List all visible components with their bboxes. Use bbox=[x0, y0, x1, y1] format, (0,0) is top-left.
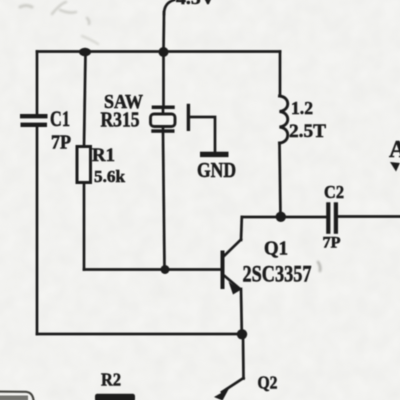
wire: supply lead bend at top bbox=[164, 0, 174, 14]
Q1 emitter vertical bbox=[240, 289, 244, 334]
svg-text:Q1: Q1 bbox=[264, 238, 288, 260]
wire: case electrode to ground bbox=[190, 117, 215, 152]
wire: lead from bottom rail down to Q2 bbox=[242, 334, 245, 379]
Q1 collector vertical bbox=[240, 217, 244, 240]
wire: output rail to right edge bbox=[338, 215, 400, 218]
wire: left vertical from C1 down to bottom rail bbox=[36, 127, 39, 334]
connector box (partial, bottom-left corner) bbox=[0, 392, 34, 400]
resistor R2 (partial, clipped at bottom) bbox=[95, 394, 135, 400]
wire: left vertical to C1 top bbox=[36, 52, 39, 115]
ground bbox=[200, 152, 229, 157]
svg-text:C2: C2 bbox=[324, 182, 344, 202]
svg-text:2SC3357: 2SC3357 bbox=[243, 262, 312, 287]
capacitor C1 bbox=[20, 114, 48, 127]
node: junction dot supply/SAW branch bbox=[159, 47, 169, 57]
svg-text:R315: R315 bbox=[101, 108, 140, 132]
wire: R1 top lead bbox=[84, 52, 86, 147]
svg-text:7P: 7P bbox=[51, 132, 71, 154]
svg-text:GND: GND bbox=[197, 158, 236, 182]
svg-text:2.5T: 2.5T bbox=[289, 121, 326, 142]
wire: R1 bottom lead down to base rail bbox=[83, 183, 86, 270]
antenna arrow bbox=[390, 162, 400, 172]
transistor Q1 2SC3357 bbox=[223, 217, 242, 334]
Q1 emitter arrowhead bbox=[229, 282, 241, 295]
SAW case electrode bar bbox=[187, 106, 190, 130]
wire: top horizontal rail bbox=[37, 50, 280, 53]
svg-text:C1: C1 bbox=[50, 106, 70, 131]
svg-text:Q2: Q2 bbox=[258, 373, 278, 393]
svg-text:R2: R2 bbox=[101, 370, 121, 390]
Q1 collector diagonal bbox=[224, 240, 241, 257]
node: junction dot SAW bottom / base rail bbox=[161, 265, 170, 274]
wire: SAW bottom lead to base rail bbox=[163, 133, 165, 270]
wire: inductor top lead from rail corner bbox=[279, 52, 282, 97]
node: junction dot inductor / output rail bbox=[276, 212, 286, 222]
wire: bottom horizontal rail bbox=[37, 333, 242, 336]
Q1 base bar bbox=[221, 253, 225, 288]
wire: supply vertical lead bbox=[162, 12, 165, 52]
wire: SAW top lead bbox=[162, 52, 165, 106]
svg-text:5.6k: 5.6k bbox=[94, 167, 126, 186]
wire: output rail from Q1 collector corner to C2 bbox=[242, 216, 326, 219]
svg-text:4.5V: 4.5V bbox=[176, 0, 215, 8]
svg-text:A: A bbox=[389, 137, 400, 163]
Q1 emitter diagonal bbox=[224, 276, 240, 289]
wire: base horizontal rail bbox=[84, 268, 222, 271]
wire: inductor bottom lead bbox=[280, 143, 281, 217]
inductor L1 2.5T bbox=[280, 96, 288, 143]
SAW resonator R315 bbox=[151, 106, 176, 133]
capacitor C2 bbox=[326, 202, 338, 234]
svg-text:R1: R1 bbox=[92, 145, 115, 166]
resistor R1 bbox=[77, 147, 91, 183]
node: junction dot emitter / bottom rail bbox=[237, 329, 247, 339]
svg-text:1.2: 1.2 bbox=[291, 98, 313, 118]
svg-text:7P: 7P bbox=[323, 235, 341, 252]
node: junction dot R1 branch bbox=[79, 48, 91, 57]
transistor Q2 (partial, clipped at bottom) bbox=[214, 378, 244, 400]
